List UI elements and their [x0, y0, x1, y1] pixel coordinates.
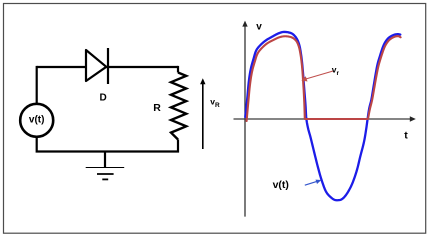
ground bar 3: [102, 178, 108, 180]
diode D cathode bar: [107, 48, 109, 84]
svg-text:v: v: [256, 21, 262, 32]
vR arrow head: [200, 78, 205, 84]
curve v(t) blue sine wave: [245, 32, 400, 200]
wire: top right segment (diode to corner): [107, 66, 179, 68]
curve vr red rectified wave: [247, 36, 401, 121]
wire: top left segment (source to diode): [37, 66, 86, 68]
vr pointer arrow line (red): [305, 71, 334, 80]
v axis arrow head: [242, 21, 247, 27]
v axis line: [244, 26, 246, 217]
ground bar 2: [97, 173, 114, 175]
wire: right upper (corner to resistor top): [177, 66, 179, 73]
v(t) pointer arrow head: [316, 180, 322, 184]
wire: bottom right (ground node to resistor bottom): [105, 140, 178, 152]
svg-text:v(t): v(t): [29, 115, 45, 126]
svg-text:v(t): v(t): [273, 179, 289, 191]
diode D triangle: [86, 50, 106, 81]
v(t) pointer arrow line (blue): [305, 181, 318, 185]
vr pointer arrow head: [301, 76, 307, 81]
t axis line: [234, 118, 411, 120]
wire: left lower + bottom left (source bottom to ground node): [37, 137, 105, 152]
svg-text:D: D: [100, 93, 107, 104]
ground bar 1: [86, 167, 125, 169]
vR arrow line (circuit): [202, 84, 204, 150]
t axis arrow head: [410, 116, 416, 121]
ground stem: [104, 152, 106, 169]
svg-text:R: R: [153, 102, 161, 114]
svg-text:t: t: [404, 130, 408, 142]
resistor R zigzag: [171, 73, 186, 140]
wire: left upper (corner to source top): [36, 66, 38, 104]
voltage source circle: [20, 104, 53, 137]
